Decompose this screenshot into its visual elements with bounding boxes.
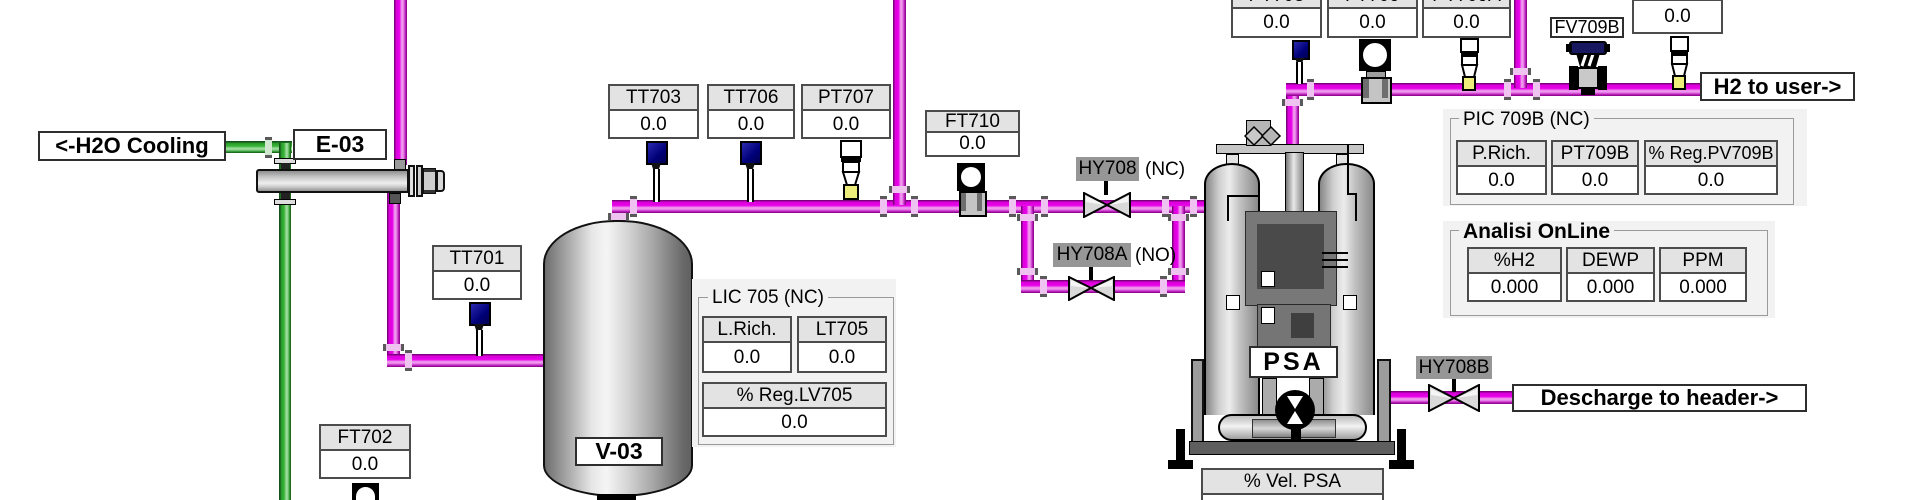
- heat exchanger E-03 green inlet flange: [274, 158, 296, 164]
- control valve instrument mid P9: [1458, 38, 1481, 91]
- readout PT709B: [1551, 140, 1639, 195]
- PSA lifting column: [1246, 120, 1271, 146]
- flow sensor FT702: [352, 483, 379, 500]
- readout PPM: [1659, 247, 1747, 302]
- flange ticks P10 tee: [1504, 79, 1511, 100]
- readout %H2: [1467, 247, 1562, 302]
- readout % Reg.LV705: [702, 382, 887, 437]
- text (NO): [1135, 245, 1176, 267]
- PSA plate legs: [1226, 154, 1239, 166]
- thermowell TT706: [740, 141, 762, 165]
- wire bypass right vertical: [1172, 206, 1185, 293]
- gray label HY708: [1076, 157, 1139, 181]
- readout DEWP: [1566, 247, 1655, 302]
- flange ticks P6 tee: [880, 196, 887, 217]
- readout L.Rich: [702, 316, 792, 373]
- heat exchanger E-03 flange rings: [408, 165, 415, 197]
- panel PIC 709B: [1443, 109, 1807, 206]
- readout LT705: [797, 316, 887, 373]
- readout top box1: [1231, 0, 1322, 38]
- heat exchanger E-03 magenta inlet collar: [394, 159, 406, 172]
- wire G1 green horizontal from H2O Cooling: [224, 141, 292, 153]
- wire P9 magenta upper header to H2 user: [1286, 83, 1701, 96]
- wire P1 magenta vertical into E-03 top: [394, 0, 407, 165]
- flow sensor on P9: [1359, 39, 1391, 71]
- panel LIC 705: [692, 279, 896, 447]
- readout FT710: [925, 110, 1020, 157]
- PSA black pipe right drop: [1347, 144, 1349, 195]
- flange ticks bypass left: [1009, 196, 1016, 217]
- text (NC): [1145, 159, 1185, 181]
- PSA lifting diamonds: [1244, 126, 1282, 146]
- flange ticks P8/P9 corner: [1282, 99, 1303, 106]
- wire bypass left vertical: [1021, 206, 1034, 293]
- thermowell on P9: [1292, 40, 1310, 60]
- heat exchanger E-03 green outlet stub: [281, 191, 290, 200]
- wire P3 magenta horizontal to V-03: [387, 354, 550, 367]
- PSA ball valve: [1274, 388, 1318, 442]
- label H2O Cooling: [38, 131, 226, 161]
- readout % Reg.PV709B: [1644, 140, 1778, 195]
- PSA tower handholes: [1226, 295, 1240, 310]
- valve HY708B: [1452, 378, 1456, 392]
- PSA frame rail left: [1191, 359, 1204, 443]
- heat exchanger E-03 end cap: [436, 170, 445, 192]
- flange ticks bypass right: [1162, 196, 1169, 217]
- PSA bottom pill vessel: [1218, 414, 1367, 441]
- PSA top plate: [1216, 144, 1364, 154]
- label H2 to user: [1700, 72, 1855, 101]
- readout top box4: [1632, 0, 1723, 34]
- wire G2 green vertical through E-03: [279, 143, 291, 500]
- PSA ladder lines: [1322, 252, 1348, 254]
- readout % Vel. PSA: [1201, 468, 1384, 500]
- thermowell TT701: [469, 302, 491, 326]
- wire P11 magenta PSA discharge: [1385, 391, 1516, 404]
- vessel V-03 bottom dome: [543, 465, 693, 497]
- readout top box2: [1327, 0, 1418, 38]
- control valve FV709B: [1563, 39, 1613, 99]
- readout TT701: [432, 245, 522, 300]
- wire P4 magenta vertical V-03 top nozzle: [612, 202, 625, 228]
- PSA label box: [1249, 346, 1338, 378]
- thermowell TT703: [646, 141, 668, 165]
- PSA tower left: [1204, 163, 1260, 415]
- valve HY708: [1104, 180, 1108, 195]
- PSA bottom rail: [1189, 441, 1395, 455]
- heat exchanger E-03 bolted head: [423, 168, 436, 194]
- readout TT706: [707, 84, 795, 139]
- readout top box3: [1422, 0, 1511, 38]
- flange ticks P2/P3 corner: [383, 344, 404, 351]
- heat exchanger E-03 green inlet stub: [281, 163, 290, 171]
- label FV709B: [1550, 17, 1624, 38]
- PSA center column: [1285, 152, 1304, 216]
- PSA tower right: [1318, 163, 1375, 415]
- wire P6 magenta vertical from top edge: [893, 0, 906, 205]
- PSA foot right: [1397, 429, 1406, 462]
- vessel V-03 body: [543, 264, 693, 465]
- heat exchanger E-03 shell: [256, 169, 409, 193]
- readout P.Rich: [1456, 140, 1547, 195]
- control valve instrument right P9: [1668, 36, 1691, 90]
- flow sensor FT710: [957, 163, 985, 191]
- wire P5 magenta main header: [612, 200, 1204, 213]
- readout FT702: [319, 424, 411, 479]
- PSA foot left: [1176, 429, 1185, 462]
- wire P2 magenta vertical below E-03: [387, 193, 400, 367]
- label Descharge to header: [1512, 384, 1807, 412]
- wire P8 magenta vertical into PSA top: [1286, 88, 1299, 148]
- wire bypass bottom horizontal: [1021, 280, 1185, 293]
- PSA control panel upper: [1245, 211, 1337, 306]
- gray label HY708B: [1416, 356, 1492, 379]
- PSA control panel lower: [1257, 304, 1331, 352]
- readout TT703: [608, 84, 699, 139]
- vessel V-03 top dome: [543, 220, 693, 264]
- wire P10 magenta vertical from top edge: [1514, 0, 1527, 88]
- valve HY708A: [1089, 266, 1093, 280]
- pressure transmitter PT707: [838, 140, 864, 200]
- PSA frame rail right: [1377, 359, 1391, 443]
- vessel V-03 label: [575, 437, 663, 466]
- PSA label legs: [1262, 378, 1277, 417]
- vessel V-03 bottom nozzle: [597, 494, 636, 500]
- PSA black pipe left goalpost: [1227, 195, 1258, 197]
- flange ticks P4/P5 corner: [608, 213, 629, 220]
- heat exchanger E-03 green outlet flange: [274, 199, 296, 205]
- flange tick on G1: [265, 137, 272, 158]
- PSA panel white square: [1261, 271, 1275, 287]
- label E-03: [293, 129, 387, 160]
- gray label HY708A: [1053, 243, 1131, 267]
- readout PT707: [801, 84, 891, 139]
- panel Analisi OnLine: [1443, 221, 1775, 318]
- heat exchanger E-03 magenta outlet collar: [389, 193, 401, 204]
